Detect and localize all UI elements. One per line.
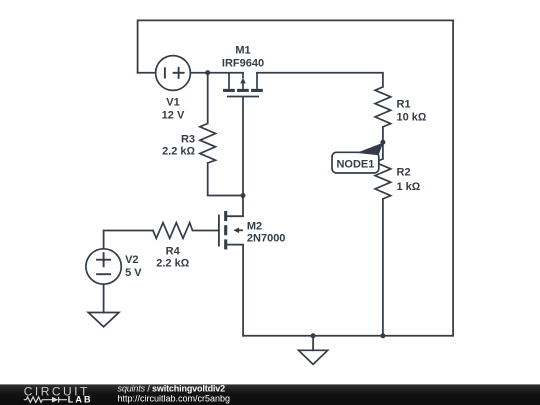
svg-text:2N7000: 2N7000 xyxy=(247,232,286,244)
svg-text:2.2 kΩ: 2.2 kΩ xyxy=(156,257,189,269)
wire node to M2 drain xyxy=(227,196,243,217)
wire V2 bottom to ground xyxy=(103,284,105,312)
ground for V2 xyxy=(88,313,119,327)
wire R3 bottom to gate node xyxy=(208,163,243,196)
svg-text:LAB: LAB xyxy=(68,395,93,405)
junction dot R2 bottom rail xyxy=(380,333,385,338)
junction dot ground rail xyxy=(311,333,316,338)
voltage source V1 xyxy=(156,56,191,91)
svg-text:V2: V2 xyxy=(125,254,138,266)
footer bar xyxy=(0,384,540,405)
svg-text:10 kΩ: 10 kΩ xyxy=(397,111,427,123)
svg-text:R3: R3 xyxy=(181,134,195,146)
svg-text:IRF9640: IRF9640 xyxy=(222,57,264,69)
wire R1 bottom to node1 dot xyxy=(382,127,384,142)
wire bottom rail xyxy=(243,335,453,337)
svg-text:M1: M1 xyxy=(235,44,250,56)
voltage source V2 xyxy=(86,249,121,284)
resistor R3 xyxy=(200,124,216,164)
svg-text:2.2 kΩ: 2.2 kΩ xyxy=(162,146,195,158)
wire V1 left terminal xyxy=(138,72,156,74)
junction dot NODE1 xyxy=(380,140,385,145)
svg-text:V1: V1 xyxy=(166,96,179,108)
node flag NODE1 box xyxy=(332,152,379,173)
node flag NODE1 pointer wedge xyxy=(357,143,384,156)
junction dot V1/R3 xyxy=(205,70,210,75)
wire R4 to M2 gate xyxy=(193,230,219,232)
ground mid bottom xyxy=(299,350,328,364)
svg-text:NODE1: NODE1 xyxy=(336,158,374,170)
wire mid ground stub xyxy=(312,336,314,351)
wire top rail V1- to right rail xyxy=(138,20,454,335)
svg-text:R4: R4 xyxy=(166,246,181,258)
wire V2 top to R4 xyxy=(104,231,153,249)
svg-text:M2: M2 xyxy=(247,220,262,232)
junction dot gate node xyxy=(241,193,246,198)
svg-text:squints / switchingvoltdiv2: squints / switchingvoltdiv2 xyxy=(118,384,226,394)
resistor R2 xyxy=(375,159,391,199)
wire M1 gate down to node xyxy=(242,97,244,195)
svg-text:R2: R2 xyxy=(397,167,411,179)
wire M2 source to bottom rail xyxy=(227,245,243,336)
wire node1 dot to R2 top xyxy=(382,142,384,159)
wire M1 drain to R1 top xyxy=(257,73,383,87)
footer logo squiggle resistor+diode xyxy=(24,397,67,403)
svg-text:5 V: 5 V xyxy=(125,267,142,279)
svg-text:1 kΩ: 1 kΩ xyxy=(397,181,421,193)
wire V1 right terminal to M1 source/body xyxy=(190,72,243,74)
p-mosfet M1 xyxy=(223,73,263,97)
svg-text:R1: R1 xyxy=(397,99,411,111)
n-mosfet M2 xyxy=(219,211,243,249)
svg-text:http://circuitlab.com/cr5anbg: http://circuitlab.com/cr5anbg xyxy=(118,394,231,404)
svg-text:12 V: 12 V xyxy=(162,109,185,121)
resistor R4 xyxy=(153,223,193,239)
wire R3 top from junction xyxy=(207,73,209,124)
wire R2 bottom to bottom rail xyxy=(382,199,384,336)
resistor R1 xyxy=(375,87,391,127)
